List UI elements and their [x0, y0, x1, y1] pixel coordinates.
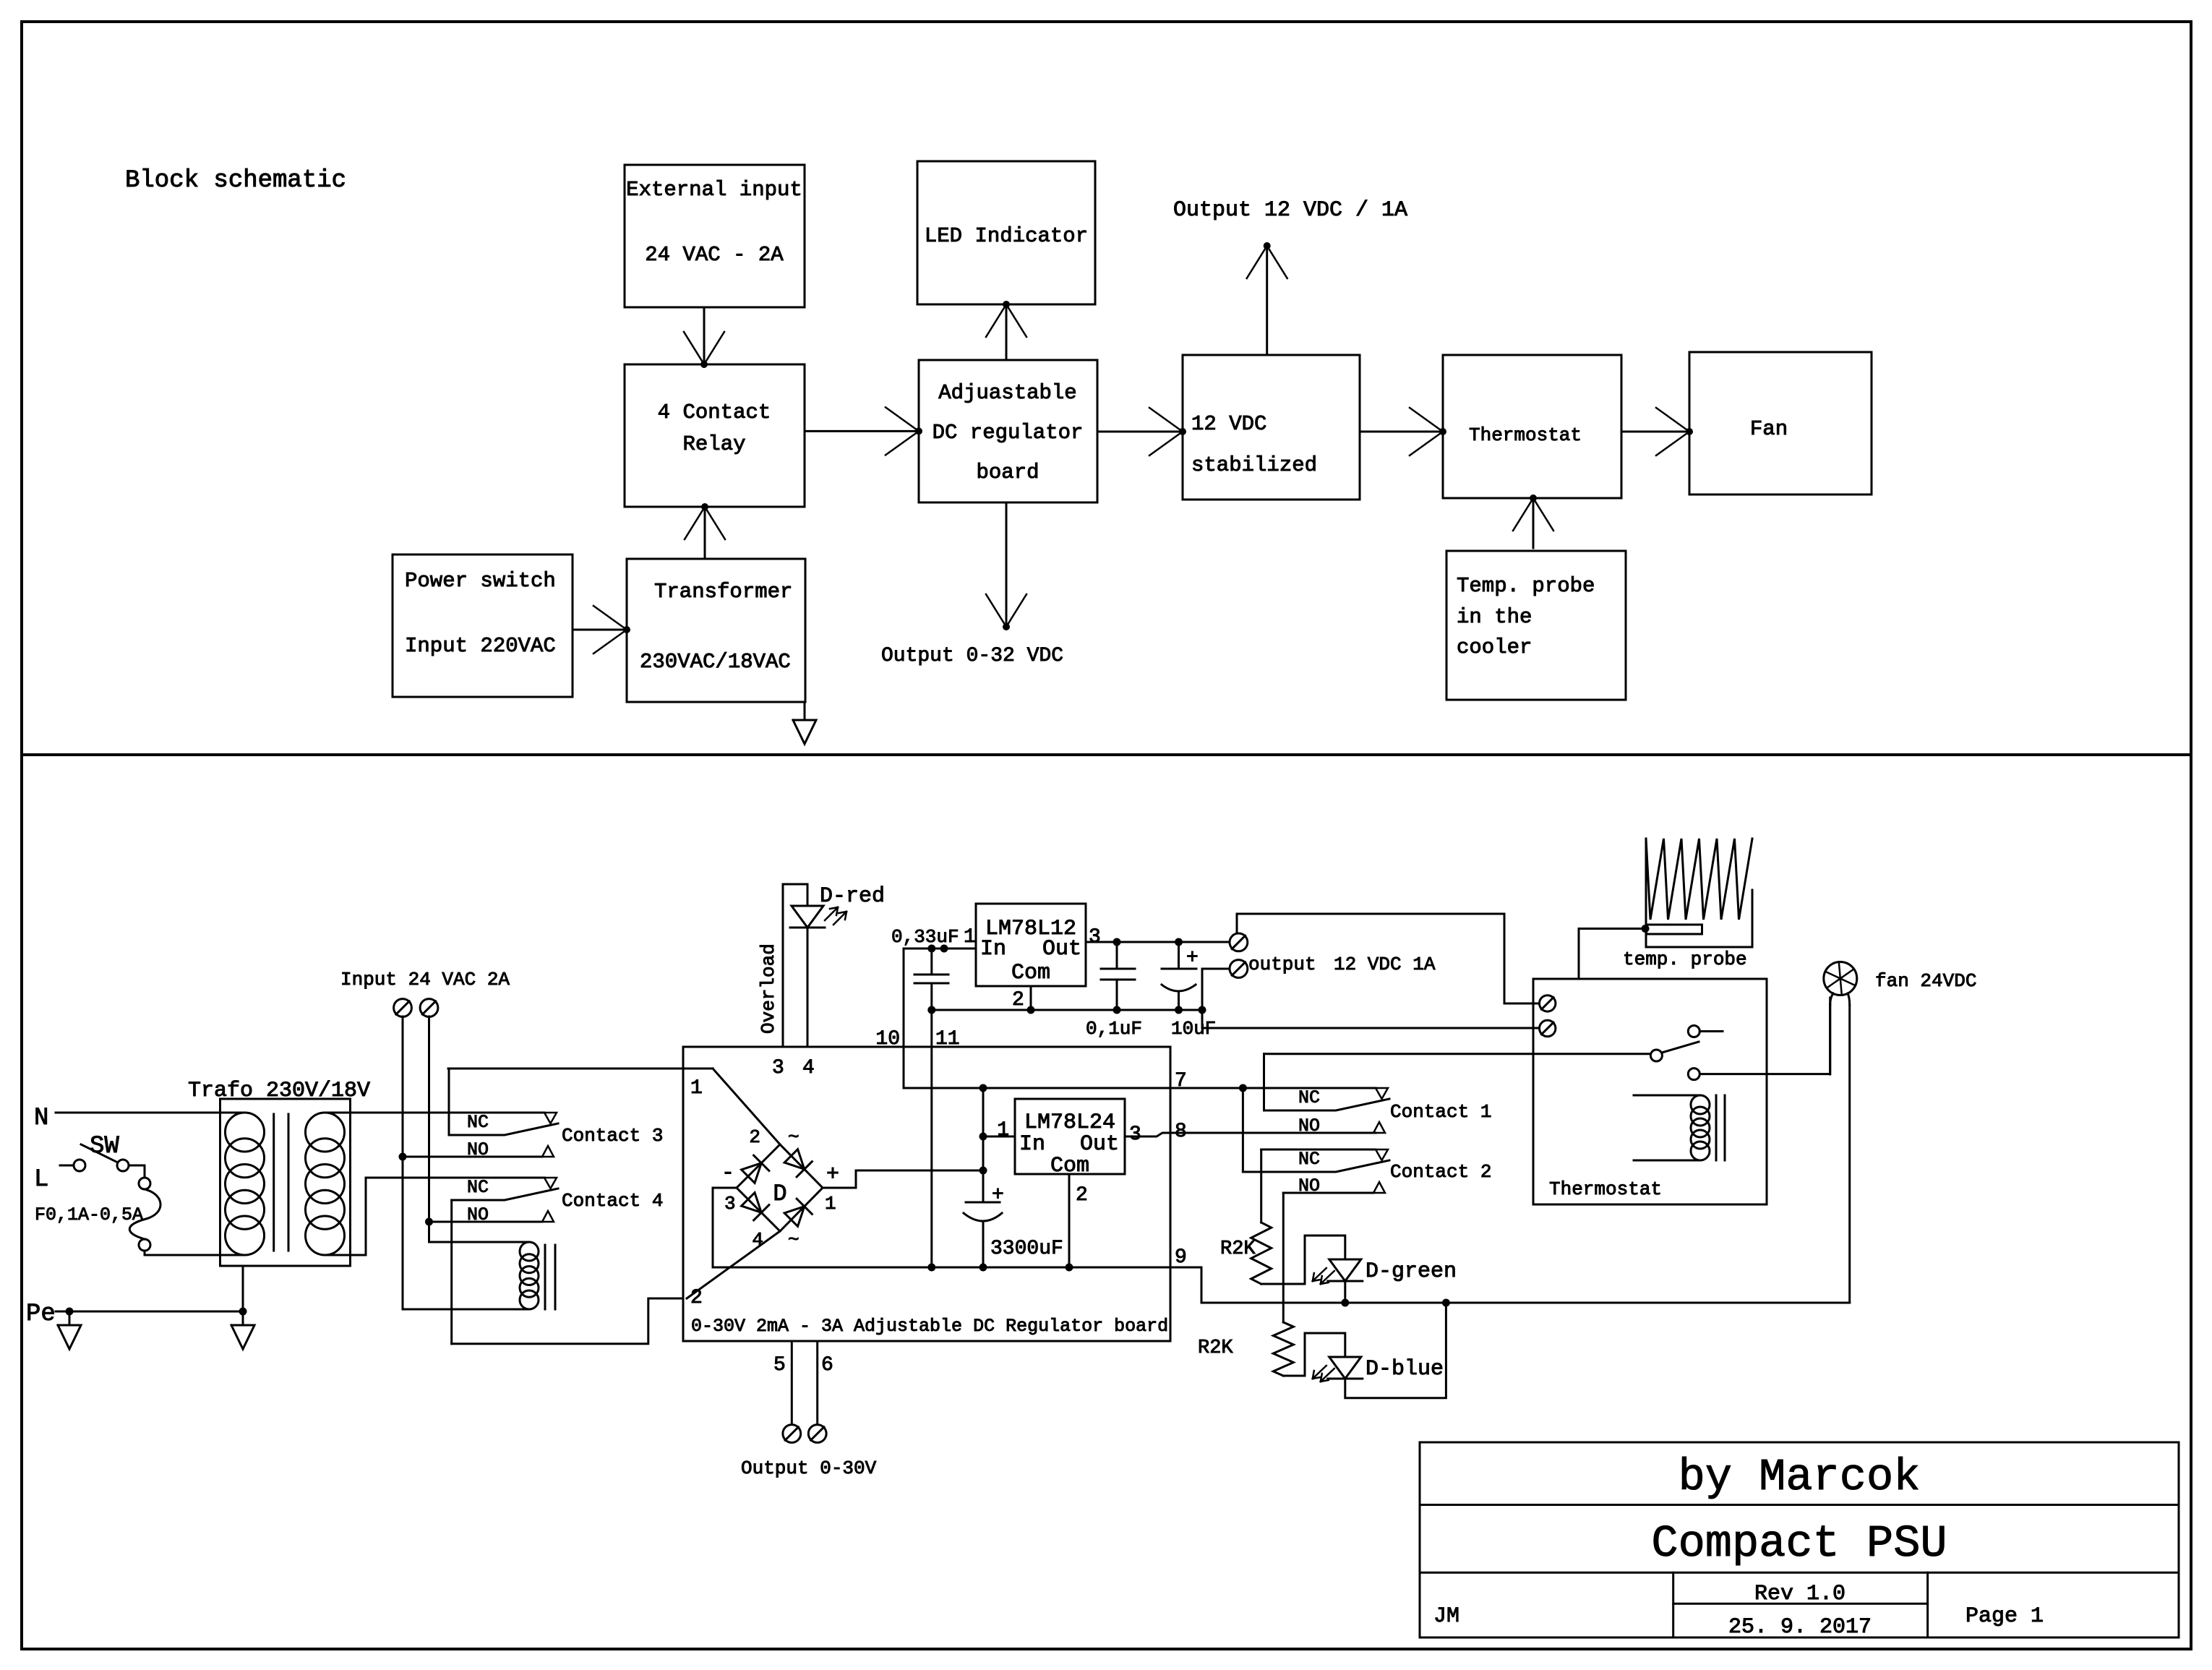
- svg-text:Compact PSU: Compact PSU: [1651, 1518, 1947, 1570]
- svg-text:Input 220VAC: Input 220VAC: [405, 634, 556, 658]
- svg-text:9: 9: [1175, 1246, 1187, 1269]
- svg-text:10: 10: [875, 1028, 900, 1050]
- svg-text:R2K: R2K: [1198, 1337, 1233, 1359]
- svg-text:R2K: R2K: [1220, 1238, 1256, 1260]
- svg-text:~: ~: [788, 1229, 800, 1251]
- svg-text:1: 1: [997, 1119, 1009, 1142]
- svg-text:3300uF: 3300uF: [990, 1238, 1063, 1260]
- svg-text:~: ~: [788, 1126, 800, 1148]
- svg-text:25. 9. 2017: 25. 9. 2017: [1728, 1615, 1872, 1640]
- svg-text:cooler: cooler: [1457, 635, 1532, 659]
- svg-text:In: In: [1019, 1132, 1045, 1157]
- svg-text:NO: NO: [1298, 1176, 1320, 1196]
- svg-text:Page 1: Page 1: [1965, 1604, 2044, 1629]
- svg-text:D-red: D-red: [820, 884, 885, 909]
- svg-text:F0,1A-0,5A: F0,1A-0,5A: [35, 1204, 143, 1225]
- svg-text:Overload: Overload: [758, 943, 779, 1034]
- svg-text:12 VDC 1A: 12 VDC 1A: [1334, 954, 1436, 975]
- svg-text:1: 1: [825, 1193, 836, 1215]
- svg-text:0,1uF: 0,1uF: [1086, 1018, 1142, 1040]
- svg-text:+: +: [826, 1162, 839, 1187]
- svg-text:In: In: [980, 937, 1006, 962]
- svg-text:NC: NC: [1298, 1149, 1320, 1170]
- svg-text:Output 12 VDC / 1A: Output 12 VDC / 1A: [1173, 198, 1407, 223]
- svg-text:Out: Out: [1042, 937, 1081, 962]
- svg-text:6: 6: [821, 1354, 833, 1376]
- svg-text:4 Contact: 4 Contact: [658, 401, 771, 424]
- svg-text:stabilized: stabilized: [1191, 453, 1317, 477]
- svg-text:temp. probe: temp. probe: [1623, 949, 1747, 970]
- svg-text:3: 3: [1129, 1123, 1141, 1146]
- svg-text:3: 3: [724, 1193, 736, 1215]
- svg-text:+: +: [992, 1184, 1004, 1207]
- svg-text:2: 2: [749, 1126, 760, 1148]
- svg-text:D-blue: D-blue: [1366, 1357, 1444, 1382]
- svg-text:Out: Out: [1080, 1132, 1119, 1157]
- svg-text:Output 0-30V: Output 0-30V: [741, 1457, 877, 1479]
- svg-text:3: 3: [772, 1057, 784, 1079]
- svg-text:Adjuastable: Adjuastable: [938, 381, 1076, 405]
- svg-text:Rev 1.0: Rev 1.0: [1754, 1582, 1846, 1606]
- svg-text:Block schematic: Block schematic: [125, 167, 346, 194]
- svg-text:1: 1: [690, 1077, 703, 1100]
- svg-text:0,33uF: 0,33uF: [891, 926, 959, 948]
- svg-text:+: +: [1186, 947, 1199, 969]
- svg-text:D-green: D-green: [1366, 1259, 1457, 1284]
- svg-text:Fan: Fan: [1750, 417, 1788, 441]
- svg-text:JM: JM: [1433, 1604, 1459, 1629]
- svg-text:Power switch: Power switch: [405, 569, 556, 593]
- svg-text:fan 24VDC: fan 24VDC: [1875, 970, 1976, 992]
- svg-text:by Marcok: by Marcok: [1679, 1452, 1921, 1503]
- svg-text:Trafo 230V/18V: Trafo 230V/18V: [188, 1079, 370, 1103]
- svg-text:11: 11: [935, 1028, 960, 1050]
- svg-text:230VAC/18VAC: 230VAC/18VAC: [640, 650, 791, 674]
- svg-text:LM78L24: LM78L24: [1024, 1110, 1115, 1135]
- svg-text:LED Indicator: LED Indicator: [925, 224, 1088, 248]
- svg-text:DC regulator: DC regulator: [933, 421, 1084, 445]
- svg-text:Com: Com: [1011, 961, 1050, 985]
- svg-text:Transformer: Transformer: [654, 580, 792, 604]
- svg-text:Temp. probe: Temp. probe: [1457, 574, 1595, 598]
- svg-text:NO: NO: [467, 1204, 489, 1225]
- svg-text:External input: External input: [626, 178, 802, 202]
- svg-text:2: 2: [1012, 989, 1024, 1011]
- svg-text:Contact 4: Contact 4: [562, 1190, 663, 1212]
- svg-text:Contact 1: Contact 1: [1390, 1101, 1491, 1123]
- svg-text:0-30V 2mA - 3A Adjustable DC R: 0-30V 2mA - 3A Adjustable DC Regulator b…: [691, 1316, 1168, 1337]
- svg-text:-: -: [721, 1161, 734, 1186]
- svg-text:1: 1: [964, 926, 976, 949]
- svg-text:NC: NC: [467, 1177, 489, 1198]
- svg-text:Contact 3: Contact 3: [562, 1125, 663, 1147]
- svg-text:Input 24 VAC 2A: Input 24 VAC 2A: [340, 969, 510, 990]
- svg-text:2: 2: [1076, 1184, 1088, 1207]
- svg-text:board: board: [976, 461, 1039, 484]
- svg-text:4: 4: [752, 1229, 763, 1251]
- svg-text:5: 5: [773, 1354, 786, 1376]
- svg-text:Output 0-32 VDC: Output 0-32 VDC: [881, 645, 1063, 667]
- svg-text:D: D: [773, 1181, 786, 1207]
- svg-text:3: 3: [1089, 926, 1101, 949]
- svg-text:4: 4: [802, 1057, 815, 1079]
- svg-text:NO: NO: [1298, 1116, 1320, 1136]
- svg-text:L: L: [34, 1166, 48, 1194]
- svg-text:12 VDC: 12 VDC: [1191, 412, 1266, 436]
- svg-text:in the: in the: [1457, 605, 1532, 629]
- svg-text:N: N: [34, 1105, 48, 1132]
- svg-text:NC: NC: [1298, 1087, 1320, 1108]
- svg-text:Contact 2: Contact 2: [1390, 1161, 1491, 1183]
- svg-text:NC: NC: [467, 1112, 489, 1133]
- svg-text:Relay: Relay: [682, 432, 745, 456]
- svg-text:NO: NO: [467, 1139, 489, 1160]
- svg-text:24 VAC - 2A: 24 VAC - 2A: [645, 243, 784, 267]
- svg-text:Thermostat: Thermostat: [1469, 424, 1582, 446]
- svg-text:Thermostat: Thermostat: [1549, 1178, 1662, 1200]
- svg-text:output: output: [1248, 954, 1316, 975]
- svg-text:Pe: Pe: [26, 1301, 56, 1328]
